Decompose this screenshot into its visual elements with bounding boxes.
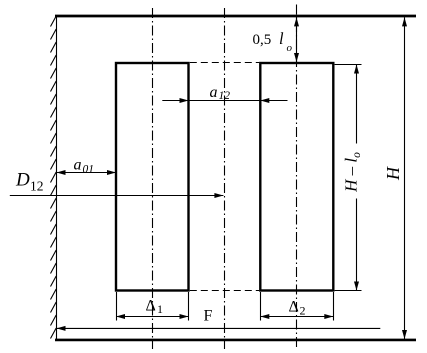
svg-text:12: 12 (219, 90, 231, 102)
svg-text:a: a (74, 157, 82, 174)
svg-text:a: a (210, 84, 218, 101)
svg-text:Δ: Δ (289, 299, 299, 316)
svg-text:H: H (383, 166, 403, 181)
svg-text:0,5: 0,5 (253, 32, 272, 48)
svg-text:H – lo: H – lo (342, 152, 364, 193)
svg-text:1: 1 (157, 302, 163, 316)
svg-text:F: F (204, 308, 213, 325)
svg-text:2: 2 (300, 304, 306, 318)
svg-text:12: 12 (30, 179, 44, 194)
svg-text:o: o (287, 42, 293, 54)
svg-text:D: D (15, 170, 30, 191)
svg-text:Δ: Δ (146, 298, 156, 315)
svg-text:l: l (279, 29, 284, 48)
svg-text:01: 01 (83, 164, 95, 176)
